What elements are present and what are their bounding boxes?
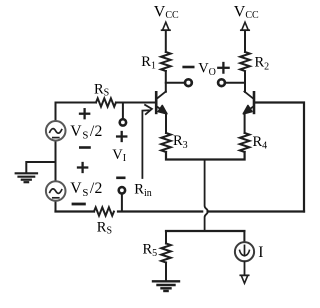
wire collector junction to right output terminal <box>226 82 245 84</box>
label minus of VO <box>184 66 194 69</box>
label VO <box>198 61 216 79</box>
label Rin <box>134 181 151 199</box>
arrow Rin (input resistance) <box>142 105 152 178</box>
label plus of VO <box>218 63 228 73</box>
wire emitter Q1 to R3 <box>165 113 167 133</box>
label R5 <box>143 242 158 260</box>
power VCC right label <box>234 3 259 21</box>
label V1 <box>112 147 126 164</box>
label minus of V1 <box>118 177 125 180</box>
svg-text:R3: R3 <box>173 133 188 151</box>
svg-text:R1: R1 <box>141 54 156 72</box>
label minus (bottom source) <box>73 203 84 206</box>
wire R5 to ground <box>165 263 167 281</box>
label R4 <box>253 134 268 152</box>
node V1 bottom terminal <box>119 187 125 211</box>
power VCC left label <box>154 4 179 22</box>
resistor RS top <box>96 98 116 106</box>
wire bias rail to current source <box>243 231 245 242</box>
wire bias rail to R5 <box>165 231 167 244</box>
resistor RS bottom <box>94 207 114 215</box>
transistor Q2 (right, npn) <box>243 92 254 114</box>
svg-text:R4: R4 <box>253 134 268 152</box>
supply arrow right (to VCC) <box>241 22 249 52</box>
label RS bottom <box>97 220 112 237</box>
label RS top <box>94 82 109 99</box>
label minus (top source) <box>80 146 89 149</box>
label R3 <box>173 133 188 151</box>
svg-text:VS/2: VS/2 <box>70 123 102 142</box>
svg-text:VS/2: VS/2 <box>70 180 102 199</box>
resistor R3 <box>161 133 171 152</box>
label plus (top source) <box>80 109 89 118</box>
source VS/2 top <box>46 121 66 141</box>
wire emitter Q2 to R4 <box>244 113 246 133</box>
wire bias rail (R5 to current source) <box>166 230 244 232</box>
svg-text:Rin: Rin <box>134 181 151 199</box>
wire collector junction to left output terminal <box>166 82 184 84</box>
node V1 top terminal <box>120 103 126 126</box>
svg-text:VO: VO <box>198 61 216 79</box>
label plus (bottom source) <box>78 163 87 172</box>
wire R1 bottom to collector junction <box>165 71 167 92</box>
current source I <box>235 242 254 261</box>
wire emitter rail to current node (with hop over input rail) <box>205 160 208 231</box>
label VS/2 bottom <box>70 180 102 199</box>
supply arrow down (current source to negative rail) <box>240 262 248 284</box>
svg-text:RS: RS <box>94 82 109 99</box>
resistor R5 <box>161 244 171 263</box>
wire base Q1 (top input wire) <box>56 102 156 104</box>
resistor R4 <box>240 133 250 152</box>
svg-text:R5: R5 <box>143 242 158 260</box>
svg-text:VCC: VCC <box>234 3 259 21</box>
resistor R2 <box>240 52 250 71</box>
wire R2 bottom to collector junction <box>244 72 246 91</box>
label R2 <box>255 54 270 72</box>
resistor R1 <box>161 52 171 71</box>
svg-text:I: I <box>258 244 263 261</box>
source VS/2 bottom <box>46 181 66 201</box>
wire to ground <box>26 162 55 173</box>
label plus of V1 <box>117 132 126 141</box>
wire emitter rail (R3 and R4 bottoms) <box>166 152 245 160</box>
svg-text:RS: RS <box>97 220 112 237</box>
ground (below R5) <box>153 281 179 291</box>
svg-text:VCC: VCC <box>154 4 179 22</box>
node VO- terminal circle <box>185 79 192 86</box>
label I <box>258 244 263 261</box>
svg-text:R2: R2 <box>255 54 270 72</box>
node VO+ terminal circle <box>218 79 225 86</box>
label VS/2 top <box>70 123 102 142</box>
label R1 <box>141 54 156 72</box>
ground (left) <box>16 173 37 182</box>
supply arrow left (to VCC) <box>162 22 170 52</box>
wire bottom input rail <box>56 210 305 212</box>
transistor Q1 (left, npn) <box>156 92 167 114</box>
wire left vertical (source branch) <box>55 103 57 212</box>
wire base Q2 to right edge and down <box>255 103 305 212</box>
svg-text:VI: VI <box>112 147 126 164</box>
